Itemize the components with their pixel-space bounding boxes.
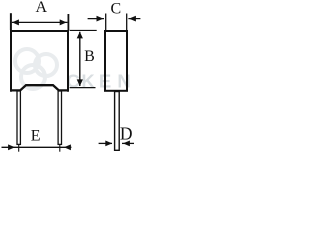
dimension C arrowhead left	[97, 16, 104, 22]
dimension A arrowhead right	[60, 19, 67, 25]
dimension C line left segment	[88, 18, 104, 20]
svg-text:K: K	[81, 71, 95, 92]
dimension B line	[79, 32, 81, 86]
capacitor body side view	[105, 31, 127, 91]
lead left (front view)	[17, 91, 20, 144]
dimension E tick right	[59, 144, 61, 151]
dimension D arrowhead right	[123, 141, 130, 147]
capacitor body front view	[10, 31, 69, 92]
dimension D arrowhead left	[105, 141, 112, 147]
dimension E line	[2, 146, 72, 148]
svg-text:A: A	[36, 0, 48, 16]
dimension D line right segment	[122, 142, 134, 144]
dimension C line right segment	[128, 18, 140, 20]
svg-text:B: B	[84, 48, 95, 65]
dimension E arrowhead right	[64, 144, 71, 150]
dimension D line left segment	[99, 142, 112, 144]
watermark logo rings	[15, 49, 57, 89]
dimension C extension line right	[126, 14, 128, 31]
dimension B arrowhead up	[77, 32, 83, 39]
lead (side view)	[115, 92, 120, 151]
svg-text:E: E	[31, 128, 41, 145]
dimension E tick left	[18, 144, 20, 151]
dimension B extension line top	[70, 29, 97, 31]
dimension A line	[12, 21, 68, 23]
watermark text KEN	[66, 71, 130, 92]
dimension E arrowhead left	[8, 144, 15, 150]
dimension A extension line left	[10, 13, 12, 30]
dimension A extension line right	[67, 14, 69, 30]
lead right (front view)	[58, 91, 61, 144]
dimension A arrowhead left	[12, 19, 19, 25]
svg-text:N: N	[117, 71, 130, 92]
dimension B arrowhead down	[77, 79, 83, 86]
dimension B extension line bottom	[70, 87, 96, 89]
svg-text:C: C	[110, 1, 121, 18]
dimension C arrowhead right	[129, 16, 136, 22]
svg-text:D: D	[120, 123, 133, 143]
dimension C extension line left	[105, 14, 107, 31]
